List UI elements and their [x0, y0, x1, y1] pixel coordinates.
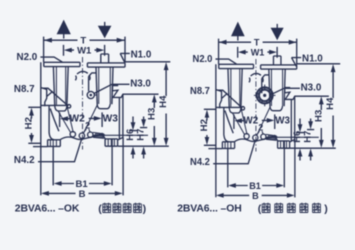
label 2 with leaders — [83, 120, 90, 133]
dimension W1 — [64, 45, 105, 57]
H4 top extension — [125, 61, 170, 63]
label N8.7 with leader — [14, 84, 68, 106]
dimension H7 — [135, 117, 148, 159]
casing top between ports — [75, 71, 90, 80]
internal strut lines — [58, 105, 98, 134]
svg-text:W3: W3 — [103, 114, 119, 125]
leader line to H6 tick — [93, 134, 148, 136]
suction flange plate — [44, 62, 80, 66]
dimension H4 — [158, 62, 169, 146]
svg-text:(: ( — [98, 203, 102, 215]
hatched wedge — [93, 132, 105, 138]
dimension B — [41, 138, 123, 200]
drain circle 1 — [70, 132, 75, 137]
label N1.0 left with leader — [120, 49, 152, 62]
svg-text:N3.0: N3.0 — [130, 79, 151, 90]
label N1.0 right with leader — [292, 54, 324, 67]
right chamfer block — [113, 86, 123, 98]
svg-text:N3.0: N3.0 — [301, 82, 322, 93]
pump centerline — [82, 57, 84, 150]
dimension B1 — [53, 139, 112, 190]
svg-text:2BVA6... –OK: 2BVA6... –OK — [15, 204, 80, 215]
svg-text:): ) — [143, 203, 147, 215]
right casing wall — [118, 94, 123, 140]
volute arc — [50, 109, 59, 132]
svg-text:B: B — [79, 189, 86, 200]
left chamfer block — [41, 88, 52, 106]
svg-text:H4: H4 — [158, 95, 169, 108]
discharge flange plate — [87, 63, 125, 67]
H3 top extension — [123, 93, 159, 95]
label N2.0 with leader — [17, 52, 63, 63]
right foot (hatched) — [105, 139, 118, 146]
svg-text:N4.2: N4.2 — [14, 155, 35, 166]
label N3.0 right with leader — [272, 82, 322, 94]
drain circle 3 — [88, 132, 93, 137]
dimension H3 — [146, 94, 157, 145]
knurled circle (right diagram) — [254, 85, 276, 107]
long left extension line — [40, 62, 42, 195]
svg-text:2BVA6... –OH: 2BVA6... –OH — [177, 204, 241, 215]
sight glass small circle (left diagram) — [87, 91, 97, 98]
H dimension column (left) — [118, 62, 169, 158]
dimension H6 — [124, 117, 137, 159]
left casing wall — [49, 105, 54, 139]
port leader to center circle — [89, 73, 96, 91]
left shoulder ledge — [41, 104, 68, 106]
left foot (hatched) — [48, 140, 61, 147]
svg-text:H7: H7 — [135, 129, 146, 141]
baseline segment left of feet — [33, 146, 48, 148]
drain circle 2 — [79, 133, 84, 138]
casing bottom curve — [60, 134, 105, 140]
dimension H2 — [23, 107, 40, 143]
discharge arrow (down triangle) — [98, 22, 112, 38]
dimension W2 — [60, 112, 86, 127]
caption left — [15, 203, 146, 215]
svg-text:H6: H6 — [124, 129, 135, 141]
svg-text:(: ( — [258, 203, 262, 215]
svg-text:W2: W2 — [70, 114, 86, 125]
svg-text:N1.0: N1.0 — [131, 49, 152, 60]
svg-text:): ) — [324, 203, 328, 215]
dimension T — [44, 36, 125, 63]
svg-text:H3: H3 — [146, 108, 157, 120]
drain boss circle on suction neck — [67, 105, 70, 108]
svg-text:N1.0: N1.0 — [302, 54, 323, 65]
suction port neck — [53, 67, 68, 111]
svg-text:N2.0: N2.0 — [17, 52, 38, 63]
discharge port neck — [96, 67, 113, 109]
svg-text:W1: W1 — [77, 46, 92, 57]
baseline right of feet — [118, 145, 169, 147]
caption right — [177, 203, 328, 215]
svg-text:H2: H2 — [23, 117, 34, 129]
discharge stub above flange — [101, 54, 109, 63]
label N4.2 with leader — [14, 139, 82, 166]
label N3.0 left with leader — [94, 79, 151, 94]
suction arrow (up triangle) — [57, 20, 71, 39]
dimension W3 — [89, 112, 119, 127]
svg-text:N8.7: N8.7 — [14, 84, 35, 95]
